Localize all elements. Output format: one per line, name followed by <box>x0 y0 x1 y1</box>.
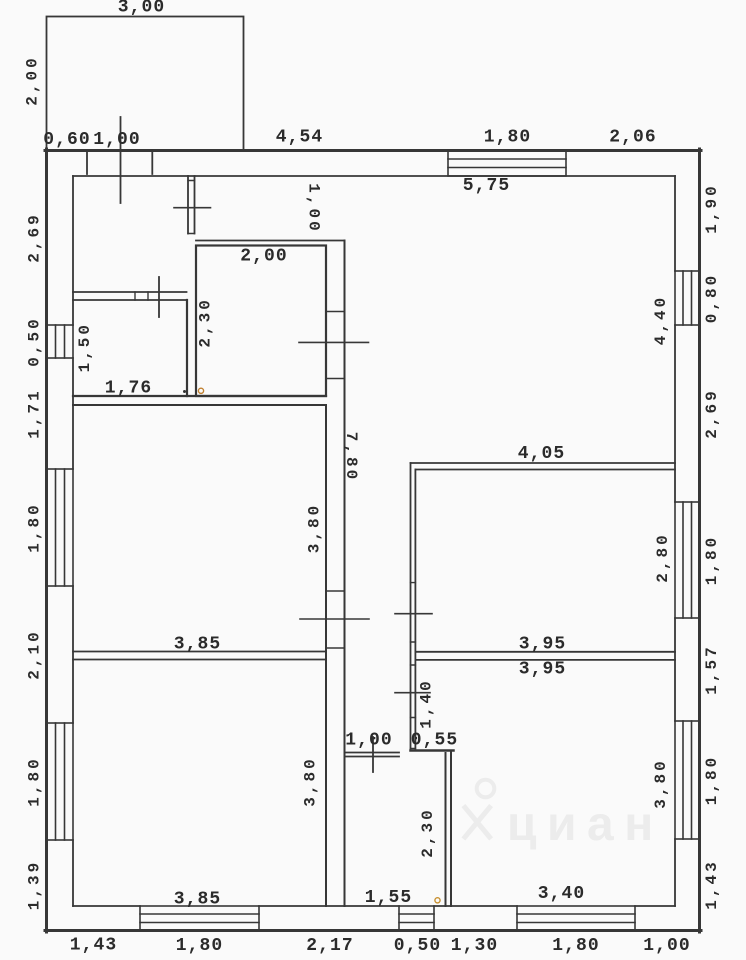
svg-text:1,71: 1,71 <box>25 388 43 438</box>
svg-text:1,80: 1,80 <box>25 756 43 806</box>
wall y405 room C top <box>73 404 326 406</box>
svg-text:1,55: 1,55 <box>365 888 413 908</box>
wall x326 vertical long <box>325 405 327 906</box>
inner face right wall <box>674 176 676 906</box>
svg-text:1,00: 1,00 <box>643 936 691 956</box>
outer wall right <box>698 149 701 932</box>
svg-text:2,30: 2,30 <box>419 807 437 857</box>
svg-text:3,80: 3,80 <box>301 756 319 806</box>
svg-text:1,50: 1,50 <box>76 322 94 372</box>
door leaf room E <box>372 737 374 772</box>
inner face top wall <box>73 175 675 177</box>
dot room B corner <box>183 390 186 393</box>
svg-text:1,40: 1,40 <box>418 678 436 728</box>
wall x344.5 vertical long <box>344 241 346 907</box>
svg-text:1,80: 1,80 <box>552 936 600 956</box>
porch outline <box>47 17 244 151</box>
wall above bathroom y240.5 <box>196 240 345 242</box>
wall room A bottom lower line <box>73 299 187 301</box>
bathroom door caps <box>326 312 345 379</box>
wall room D top y469.5 <box>415 469 675 471</box>
svg-text:1,90: 1,90 <box>703 183 721 233</box>
svg-text:0,80: 0,80 <box>703 273 721 323</box>
room E top wall line 1 <box>345 752 400 754</box>
corner stub y750.5 <box>411 749 454 752</box>
window right wall 1,80 middle <box>675 502 700 618</box>
svg-text:3,00: 3,00 <box>118 0 166 18</box>
svg-text:1,30: 1,30 <box>451 936 499 956</box>
svg-text:1,76: 1,76 <box>105 379 153 399</box>
wall x415.4 vertical <box>414 470 416 749</box>
svg-text:1,00: 1,00 <box>305 183 323 233</box>
outer wall bottom <box>45 929 701 932</box>
caps on wall x410-415 <box>411 583 416 749</box>
wall big room bottom y463 <box>411 462 676 464</box>
inner face left wall <box>72 176 74 906</box>
bottom-right room left wall <box>450 751 452 907</box>
inner face bottom wall <box>73 905 675 907</box>
svg-text:1,00: 1,00 <box>345 731 393 751</box>
partition room A right line 1 <box>187 176 189 234</box>
svg-text:2,69: 2,69 <box>703 388 721 438</box>
watermark cian logo cross <box>465 808 490 838</box>
partition room A right line 2 <box>194 176 196 234</box>
svg-text:1,43: 1,43 <box>703 859 721 909</box>
svg-text:1,39: 1,39 <box>25 860 43 910</box>
svg-text:3,80: 3,80 <box>652 758 670 808</box>
double wall right y659.9 <box>415 659 675 661</box>
svg-text:2,00: 2,00 <box>240 247 288 267</box>
svg-text:3,95: 3,95 <box>519 635 567 655</box>
svg-text:0,50: 0,50 <box>394 936 442 956</box>
svg-text:4,05: 4,05 <box>518 444 566 464</box>
svg-text:3,40: 3,40 <box>538 884 586 904</box>
double wall left y659.5 <box>73 659 326 661</box>
wall x410.5 vertical <box>410 463 412 749</box>
bathroom door leaf <box>299 341 369 343</box>
door opening ticks in top wall <box>87 151 152 175</box>
room E right wall <box>445 753 447 906</box>
svg-text:2,17: 2,17 <box>306 936 354 956</box>
window bottom wall 1,80 left <box>140 906 259 931</box>
svg-text:0,60: 0,60 <box>43 130 91 150</box>
svg-text:4,40: 4,40 <box>652 295 670 345</box>
door leaf bottom-right room <box>395 692 430 694</box>
double wall left y651.5 <box>73 651 326 653</box>
door leaf room A partition <box>174 207 211 209</box>
svg-text:2,69: 2,69 <box>25 212 43 262</box>
orange ring bathroom corner <box>198 388 203 393</box>
svg-text:4,54: 4,54 <box>276 128 324 148</box>
svg-text:3,85: 3,85 <box>174 890 222 910</box>
window top wall 1,80 <box>448 151 566 177</box>
svg-text:5,75: 5,75 <box>463 176 511 196</box>
svg-text:циан: циан <box>507 798 664 851</box>
svg-text:0,55: 0,55 <box>411 731 459 751</box>
door caps room A bottom wall <box>135 292 148 300</box>
window bottom wall 3,40 right <box>517 906 635 931</box>
room E top wall line 2 <box>345 756 400 758</box>
svg-text:0,50: 0,50 <box>25 316 43 366</box>
svg-text:2,30: 2,30 <box>197 297 215 347</box>
door leaf room A to room B <box>158 277 160 317</box>
svg-text:1,80: 1,80 <box>703 755 721 805</box>
svg-text:3,85: 3,85 <box>174 635 222 655</box>
wire: porch door leaf line <box>120 117 122 203</box>
svg-text:1,57: 1,57 <box>703 644 721 694</box>
window right wall 1,80 lower <box>675 721 700 839</box>
wall y396 room B and bathroom bottom <box>73 395 326 397</box>
room C door leaf <box>300 618 369 620</box>
svg-text:2,00: 2,00 <box>23 55 41 105</box>
window left wall 1,80 lower <box>47 723 74 840</box>
svg-text:1,80: 1,80 <box>25 502 43 552</box>
outer wall left <box>45 149 48 932</box>
partition caps <box>188 181 195 234</box>
svg-text:7,80: 7,80 <box>342 432 360 482</box>
svg-text:1,00: 1,00 <box>93 130 141 150</box>
window left wall 0,50 <box>47 325 74 358</box>
svg-text:2,10: 2,10 <box>25 629 43 679</box>
svg-text:1,43: 1,43 <box>70 936 118 956</box>
bathroom outline 2,00 x 2,30 <box>196 246 326 397</box>
double wall right y651.8 <box>415 651 675 653</box>
window right wall 0,80 <box>675 271 700 325</box>
svg-text:3,80: 3,80 <box>306 503 324 553</box>
window bottom wall 0,50 middle <box>399 906 434 931</box>
svg-text:2,80: 2,80 <box>654 532 672 582</box>
room B right wall <box>186 300 188 396</box>
room C door caps <box>326 591 345 648</box>
door leaf room D <box>395 613 432 615</box>
svg-text:1,80: 1,80 <box>703 535 721 585</box>
window left wall 1,80 upper <box>47 469 74 586</box>
orange ring room E corner <box>435 898 440 903</box>
svg-text:2,06: 2,06 <box>609 128 657 148</box>
svg-text:1,80: 1,80 <box>484 128 532 148</box>
watermark cian logo circle <box>477 780 495 798</box>
outer wall top <box>45 149 701 152</box>
svg-text:1,80: 1,80 <box>176 936 224 956</box>
wall room A bottom upper line <box>73 291 187 293</box>
svg-text:3,95: 3,95 <box>519 660 567 680</box>
